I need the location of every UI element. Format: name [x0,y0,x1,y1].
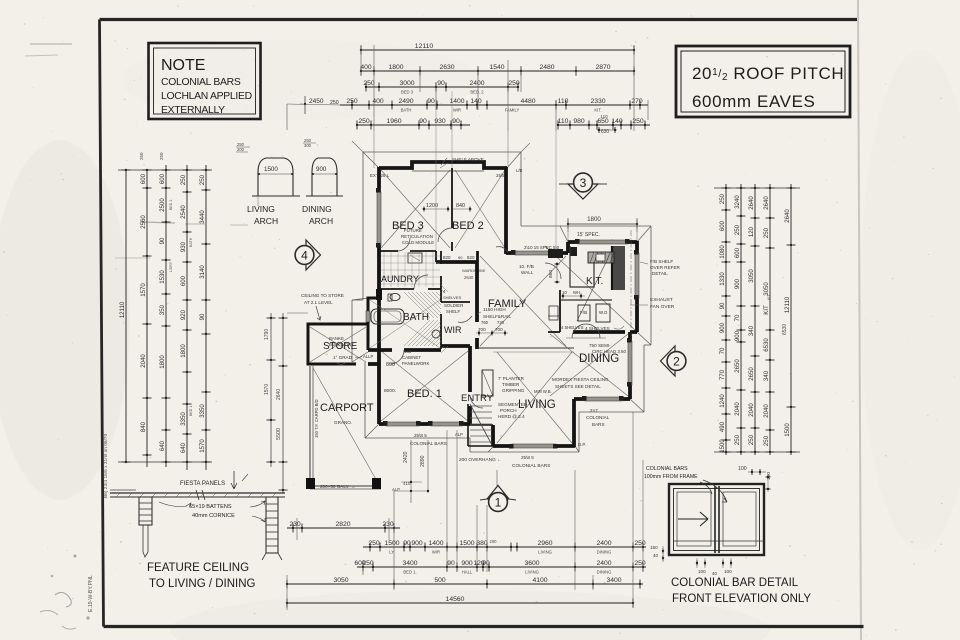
kitchen wc extra lines [548,315,560,317]
wall: bedroom block top with shelf recess [379,162,507,168]
svg-text:90: 90 [719,302,726,309]
svg-text:SHELVES: SHELVES [443,295,461,300]
kitchen bench L [570,246,594,287]
family ceiling diagonals [480,256,566,346]
svg-text:SHEETS SEE DETAIL: SHEETS SEE DETAIL [555,384,601,389]
construction lines top-left corner [352,141,363,152]
colonial bar: right pane inner [723,492,756,546]
svg-text:FAN OVER: FAN OVER [650,304,675,310]
svg-text:BED. 2: BED. 2 [470,90,484,95]
svg-text:140: 140 [611,118,623,125]
svg-text:250: 250 [358,118,370,125]
svg-text:BED 2: BED 2 [452,220,484,232]
svg-text:1500: 1500 [459,540,474,547]
svg-text:2640: 2640 [464,275,474,280]
bath cross diagonal [370,300,440,348]
wall: dining south east end [622,397,630,401]
svg-text:BARS: BARS [592,422,605,427]
svg-text:600: 600 [159,173,166,184]
right paper fold edge [858,0,861,640]
wall: family top exterior [506,251,515,255]
window: kitchen east [635,253,639,298]
svg-text:COLONIAL BAR DETAIL: COLONIAL BAR DETAIL [671,577,799,589]
svg-text:2490: 2490 [398,98,413,105]
section marker 2 [661,346,676,376]
wall: bed1 west [377,298,381,424]
hall tile diagonals [404,285,448,353]
svg-text:600mm EAVES: 600mm EAVES [692,92,815,111]
svg-text:150 T.F. CARPD B/D: 150 T.F. CARPD B/D [314,399,319,438]
wall: living west lower [491,425,495,446]
bottom total 14560 [287,602,633,604]
svg-text:WH: WH [573,290,580,295]
basin hall [432,330,440,338]
left dim chains group [118,169,212,171]
svg-text:3440: 3440 [199,210,206,224]
extra chain guide verticals into plan [373,131,375,168]
door arc bed3 [398,238,410,251]
svg-text:980: 980 [573,118,585,125]
svg-text:600: 600 [180,275,187,286]
svg-text:90: 90 [458,255,463,260]
window: dining east [628,341,632,385]
svg-text:70: 70 [734,314,741,321]
entry porch south wall [467,425,469,446]
bed3 ceiling diagonals [381,170,450,248]
svg-text:300: 300 [304,143,312,148]
wall: step to kitchen [566,242,570,253]
svg-text:820: 820 [467,255,475,260]
svg-text:BED 1: BED 1 [189,406,193,416]
leader arrows family [458,316,472,322]
svg-text:2400: 2400 [596,560,611,567]
svg-text:200: 200 [237,147,245,152]
wall: family north corner [476,251,478,262]
svg-text:BED 2: BED 2 [169,200,173,210]
svg-text:90: 90 [199,313,206,320]
top dim chain row3 bed3 bed2 [366,86,518,88]
svg-text:DETAIL: DETAIL [652,271,668,276]
svg-text:150: 150 [766,472,772,480]
colonial bar: window outer frame [669,484,764,555]
svg-text:LIVING: LIVING [538,550,552,555]
wall: dining east upper [628,332,632,341]
svg-text:380: 380 [476,540,488,547]
svg-text:FRONT ELEVATION ONLY: FRONT ELEVATION ONLY [672,593,811,605]
dining arch detail [312,158,337,196]
colonial bar: leader curves [700,482,712,494]
svg-text:12110: 12110 [119,301,126,318]
svg-text:90: 90 [482,560,490,567]
svg-text:900: 900 [719,322,726,333]
door arc laundry [414,275,428,289]
carport edges [309,366,311,486]
svg-text:250: 250 [368,540,380,547]
svg-text:3000: 3000 [399,80,414,87]
svg-text:2040: 2040 [734,402,741,416]
wall: wir/family divider east [475,262,479,322]
svg-text:BATH: BATH [403,312,429,323]
feature ceiling: left post ladder [139,497,152,525]
svg-text:90: 90 [437,80,445,87]
black pier laundry west [376,289,382,300]
svg-text:ARCH: ARCH [309,216,333,226]
section marker 4 [306,240,321,270]
top dim chain row4 bath wir family kit [340,104,648,106]
svg-text:WARDROBE: WARDROBE [462,268,486,273]
svg-text:250: 250 [508,80,520,87]
svg-text:2560: 2560 [140,215,147,229]
svg-text:RETICULATION: RETICULATION [401,234,433,239]
svg-text:340: 340 [763,370,770,381]
svg-text:DINING: DINING [579,353,619,365]
stray smudges top-left outside frame [30,43,72,45]
svg-text:2960: 2960 [537,540,552,547]
svg-text:BATH: BATH [401,108,412,113]
svg-text:250: 250 [748,434,755,445]
svg-text:100: 100 [724,569,732,574]
svg-text:SOLDIER: SOLDIER [444,303,463,308]
svg-text:1080: 1080 [719,245,726,259]
svg-text:COLONIAL BARS: COLONIAL BARS [410,441,447,446]
svg-text:3400: 3400 [402,560,417,567]
roof hip diagonals [363,152,379,168]
svg-text:12110: 12110 [415,43,434,50]
wall: hall east of laundry [440,251,442,264]
svg-text:D.P.: D.P. [578,442,586,447]
wall: bed block west lower [377,246,381,298]
roof pitch box border [676,46,850,117]
svg-text:900: 900 [316,166,327,173]
wall: living south east end [556,444,575,448]
svg-text:2890: 2890 [420,455,426,467]
svg-text:EXHAUST: EXHAUST [650,297,673,303]
svg-text:DINING: DINING [597,570,612,575]
svg-text:KIT.: KIT. [594,108,601,113]
svg-text:3600: 3600 [524,560,539,567]
svg-text:1530: 1530 [159,270,166,284]
bed1 ceiling diagonals [381,351,468,421]
svg-text:3050: 3050 [333,577,348,584]
svg-text:SHELF ABOVE: SHELF ABOVE [452,157,484,162]
svg-text:250: 250 [634,560,646,567]
wall: beds south [378,250,398,252]
window: bed3 west [377,192,381,246]
svg-text:70: 70 [719,347,726,354]
svg-text:MORDEX FIESTA CEILING: MORDEX FIESTA CEILING [552,377,609,382]
wall: bed2 east [504,167,508,254]
fb wo fixtures boxes [578,305,590,321]
svg-text:250: 250 [159,152,164,160]
svg-text:700: 700 [495,327,503,332]
svg-text:640: 640 [180,442,187,453]
svg-text:FEATURE CEILING: FEATURE CEILING [147,562,249,574]
svg-text:CEILING TO STORE: CEILING TO STORE [301,293,344,298]
svg-text:640: 640 [159,440,166,451]
bottom dim chain row D [287,583,643,585]
svg-text:FAMILY: FAMILY [505,108,520,113]
svg-text:250: 250 [363,80,375,87]
kitchen diagonal [577,246,614,321]
bottom carport chain 230 2820 230 [287,527,400,529]
wall: living south west end [493,444,512,448]
svg-text:ARCH: ARCH [254,216,278,226]
svg-text:WIR: WIR [432,550,440,555]
svg-text:1800: 1800 [388,64,403,71]
2450 dim near arches [304,96,306,114]
right outer total chain [790,184,792,455]
svg-text:SHELF&RAIL: SHELF&RAIL [483,314,512,319]
svg-text:ALP: ALP [455,432,463,437]
window: dining south [585,397,622,401]
colonial bar: transom line bottom [673,540,764,542]
porch steps hatch [470,405,492,407]
top dim chain row5 left [357,124,470,126]
feature ceiling: right post ladder [266,497,278,553]
svg-text:ENTRY: ENTRY [461,393,494,404]
svg-text:90: 90 [159,237,166,244]
eaves outline around house [363,151,521,153]
svg-text:1500: 1500 [719,439,726,453]
svg-text:230: 230 [289,521,301,528]
svg-text:4 SHELVES: 4 SHELVES [561,325,584,330]
svg-text:600: 600 [140,173,147,184]
svg-text:1° GRAD: 1° GRAD [333,355,353,360]
svg-text:L/B: L/B [516,168,522,173]
svg-text:250: 250 [180,174,187,185]
shelf above leader [441,158,447,165]
svg-text:14560: 14560 [446,596,465,603]
svg-text:LOCHLAN APPLIED: LOCHLAN APPLIED [161,91,252,102]
svg-text:1800: 1800 [587,216,601,223]
right dim chains group [714,187,800,189]
svg-text:2650: 2650 [734,359,741,373]
svg-text:750 SEMI-: 750 SEMI- [589,343,611,348]
svg-text:DINING: DINING [597,550,612,555]
svg-text:2540: 2540 [180,205,187,219]
svg-text:CIRC HEAD 3.60: CIRC HEAD 3.60 [592,349,626,354]
svg-text:840: 840 [456,203,465,209]
svg-text:FIESTA PANELS: FIESTA PANELS [180,481,225,487]
colonial bar: bottom dims [696,558,698,568]
laundry tile grid [381,252,440,287]
svg-text:WALL: WALL [521,270,534,275]
soft scan blotches [0,140,130,500]
svg-text:EXT. 25 L: EXT. 25 L [370,173,390,178]
svg-text:1500: 1500 [264,166,278,173]
svg-text:2650: 2650 [748,367,755,381]
svg-text:1240: 1240 [719,394,726,408]
wall: bath west bump [368,298,379,311]
svg-text:CABINET: CABINET [402,355,421,360]
section marker 1 [487,486,509,500]
bottom dim chain row B [363,546,646,548]
svg-text:2820: 2820 [335,521,350,528]
svg-text:840: 840 [140,421,147,432]
svg-text:2×7: 2×7 [590,408,598,413]
dining semicircular head arc [572,324,600,338]
laundry trough [408,253,422,263]
wall: kitchen/dining divider [548,331,560,333]
svg-text:3050: 3050 [748,269,755,283]
svg-text:3: 3 [580,176,587,190]
planter box [482,370,493,396]
svg-text:40: 40 [712,571,717,576]
wall: wir north [441,301,470,303]
wall: store [308,324,368,364]
dining ceiling diagonals [550,334,628,396]
svg-text:200×50 GALV. →: 200×50 GALV. → [320,484,355,489]
svg-text:600: 600 [719,220,726,231]
svg-text:COLONIAL BARS: COLONIAL BARS [512,463,550,469]
wall: dining south west end [574,397,585,401]
svg-text:HERD @ 2.4: HERD @ 2.4 [498,414,525,419]
svg-text:600: 600 [734,247,741,258]
svg-text:140: 140 [470,98,482,105]
wall: kitchen north east end [628,240,637,244]
svg-text:ALLP: ALLP [363,354,373,359]
svg-text:KIT: KIT [763,305,770,315]
svg-text:1150 HIGH: 1150 HIGH [483,307,506,312]
dashdot centreline kitchen east [630,230,632,336]
svg-text:2420: 2420 [403,451,409,463]
svg-text:HALL: HALL [462,570,473,575]
svg-text:LIVING: LIVING [525,570,539,575]
svg-text:2040: 2040 [748,403,755,417]
svg-text:EXTERNALLY: EXTERNALLY [161,105,225,116]
bottom dim chain row C [357,566,646,568]
bed2 ceiling diagonals [455,170,505,248]
svg-text:1330: 1330 [719,272,726,286]
svg-text:1570: 1570 [264,384,270,395]
svg-text:900: 900 [411,540,423,547]
svg-text:1500: 1500 [784,423,791,437]
svg-text:1500: 1500 [384,540,399,547]
svg-text:1790: 1790 [264,329,270,340]
svg-text:3400: 3400 [606,577,621,584]
wall: big horizontal south of bath/bed1 top [368,348,392,352]
svg-text:TIMBER: TIMBER [502,382,520,387]
svg-text:COLONIAL: COLONIAL [586,415,610,420]
svg-text:AUNDRY: AUNDRY [381,274,419,284]
svg-text:1570: 1570 [140,283,147,297]
svg-text:150: 150 [650,545,658,550]
top dim chain row5 right [558,124,650,126]
wall: kitchen east upper [635,241,639,253]
colonial bar: left pane inner [677,492,711,546]
svg-text:760: 760 [481,320,489,325]
wall: bed block west upper [377,167,381,192]
kitchen 1800 dim [568,223,637,225]
svg-text:F/B: F/B [580,310,587,315]
svg-text:130: 130 [404,349,412,354]
window: family north [515,251,556,255]
svg-text:2640: 2640 [748,196,755,210]
svg-text:65×19 BATTENS: 65×19 BATTENS [189,504,232,510]
svg-text:BATH: BATH [189,237,193,247]
kitchen bench black bits [570,247,577,256]
svg-text:2640: 2640 [276,389,282,400]
guide verticals from left chains to plan [287,312,308,314]
svg-text:TO LIVING / DINING: TO LIVING / DINING [149,578,256,590]
svg-text:250: 250 [719,193,726,204]
svg-text:110: 110 [600,114,608,119]
svg-text:25\8 5: 25\8 5 [414,433,427,438]
svg-text:2330: 2330 [590,98,605,105]
svg-text:900: 900 [461,560,473,567]
svg-text:L'DRY: L'DRY [169,261,173,272]
bath tub [371,309,404,324]
top dim chain total 12110 [361,49,634,51]
svg-text:NOTE: NOTE [161,57,205,74]
svg-text:25/5: 25/5 [496,173,505,178]
wall: porch head [468,424,493,426]
svg-text:250: 250 [734,224,741,235]
wall: laundry/bath divider [379,288,414,290]
svg-text:COLONIAL BARS: COLONIAL BARS [161,77,241,88]
svg-text:7' PLANTER: 7' PLANTER [498,376,525,381]
wall: family top east段 [556,251,568,255]
svg-text:FUTURE: FUTURE [404,228,422,233]
svg-text:3350: 3350 [180,412,187,426]
exhaust leader [630,304,638,306]
svg-text:15' SPEC.: 15' SPEC. [577,232,600,238]
svg-text:2040: 2040 [763,404,770,418]
svg-text:1570: 1570 [199,439,206,453]
svg-text:CARPORT: CARPORT [320,402,374,414]
svg-text:BULKWORK: BULKWORK [329,342,354,347]
svg-text:4: 4 [301,248,308,262]
svg-text:110: 110 [558,98,569,105]
svg-text:2630: 2630 [439,64,454,71]
top dim chain row2 [361,70,634,72]
svg-text:40: 40 [653,553,659,558]
svg-text:6530: 6530 [763,338,770,352]
svg-text:1400: 1400 [449,98,464,105]
svg-text:PANELWORK: PANELWORK [402,361,429,366]
svg-text:930: 930 [180,241,187,252]
wall: robe south of bed2 [436,260,478,264]
svg-text:400: 400 [360,64,372,71]
svg-text:3050: 3050 [763,282,770,296]
svg-text:2\10 15 SPEC 5\0: 2\10 15 SPEC 5\0 [524,245,560,250]
svg-text:90: 90 [419,118,427,125]
svg-text:820: 820 [443,255,451,260]
svg-text:OVER REFER: OVER REFER [650,265,681,270]
svg-text:2500: 2500 [159,198,166,212]
kitchen stove hatch [588,252,614,263]
NOTE box border [149,43,261,119]
door arc family entry [470,395,483,408]
svg-text:250: 250 [734,434,741,445]
svg-text:10. F/B: 10. F/B [519,264,534,269]
svg-text:100: 100 [738,466,747,472]
svg-text:250: 250 [139,152,144,160]
carport left vertical dims [270,313,272,467]
svg-text:490: 490 [719,421,726,432]
svg-text:800: 800 [386,362,395,368]
svg-text:5500: 5500 [276,428,282,440]
svg-text:720: 720 [497,320,505,325]
window: living south colonial bars [512,444,556,448]
svg-text:770: 770 [719,369,726,380]
svg-text:8000.: 8000. [384,388,396,394]
svg-text:250: 250 [199,174,206,185]
marker1 vertical guide [496,470,498,486]
colonial bar: opening arrow [678,512,708,526]
scribbles bottom-left corner outside frame [55,592,71,607]
svg-text:100mm FROM FRAME: 100mm FROM FRAME [644,474,698,480]
